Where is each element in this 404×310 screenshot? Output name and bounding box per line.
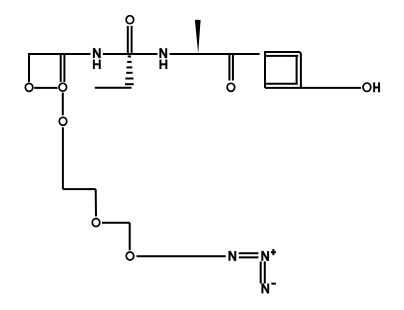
node O5: chain oxygen bbox=[59, 117, 67, 125]
ring: inner right double-bond line bbox=[296, 56, 298, 84]
wire: dioxetane ring top edge / backbone to N1 bbox=[28, 53, 91, 55]
node N2: amide nitrogen bbox=[160, 48, 166, 58]
wire: N4=N5 double bond left line bbox=[260, 261, 262, 283]
wire: corner horizontal CH2-CH2 bbox=[63, 188, 96, 190]
ring: inner top double-bond line bbox=[266, 55, 298, 57]
node O3: carbonyl oxygen top bbox=[126, 16, 134, 24]
wire: N3=N4 double bond bottom line bbox=[239, 256, 259, 258]
wire: ring bottom edge continuing to OH bbox=[265, 87, 361, 89]
wire: backbone N1 to N2 through central carbon bbox=[103, 53, 158, 55]
ring: square aromatic ring outer top edge bbox=[264, 51, 300, 53]
wire: O2 to O5 bond bbox=[62, 93, 64, 116]
node N4: azide nitrogen positive bbox=[262, 251, 268, 261]
wire: C=O3 double bond left line bbox=[127, 26, 129, 53]
node N3: azide nitrogen bbox=[230, 251, 236, 261]
wire: C=O3 double bond right line bbox=[131, 26, 133, 53]
node charge plus on N4 bbox=[271, 249, 276, 255]
wire: C4=O4 double bond left line bbox=[228, 55, 230, 81]
wire: C=O2 double bond left line bbox=[60, 55, 62, 82]
wire: C4=O4 double bond right line bbox=[232, 55, 234, 81]
node N1: amide nitrogen bbox=[94, 48, 100, 58]
node O6: chain oxygen bbox=[92, 219, 100, 227]
wire: acetal CH2 down to O7 bbox=[129, 223, 131, 251]
wedge: hashed bond from central carbon down (6 dashes) bbox=[125, 57, 134, 85]
wedge: solid bond up to methyl bbox=[195, 20, 201, 54]
wire: O5 down to corner bbox=[62, 127, 64, 189]
wire: O6 to acetal CH2 bbox=[102, 222, 130, 224]
wire: C=O2 double bond right line bbox=[63, 55, 65, 82]
node OH: phenol hydroxyl hydrogen bbox=[374, 82, 379, 92]
node O1: ring bottom-left oxygen bbox=[25, 83, 32, 91]
ring: outer left edge bbox=[264, 52, 266, 88]
wire: O1-O2 peroxide bond bbox=[34, 87, 57, 89]
wire: corner vertical down to O6 bbox=[95, 189, 97, 216]
wire: N4=N5 double bond right line bbox=[264, 261, 266, 283]
node O2: ring bottom-right oxygen bbox=[59, 83, 67, 91]
ring: corner connector top-right bbox=[299, 52, 302, 54]
wire: O7 to azide N3 bbox=[137, 255, 226, 257]
wire: backbone N2 through alpha C and carbonyl C toward ring bbox=[170, 53, 260, 55]
node N5: azide nitrogen negative bbox=[262, 284, 268, 294]
ring: inner bottom double-bond line bbox=[266, 83, 298, 85]
wire: N3=N4 double bond top line bbox=[239, 252, 259, 254]
node H1: amide H bbox=[94, 60, 100, 70]
node O7: chain oxygen bbox=[126, 252, 134, 260]
wire: ethyl C-C bond bbox=[95, 87, 132, 89]
node OH: phenol hydroxyl oxygen bbox=[363, 83, 371, 91]
node O4: ketone oxygen bbox=[227, 83, 235, 91]
ring: outer right edge bbox=[300, 53, 302, 88]
node H2: amide H bbox=[160, 60, 166, 70]
node charge minus on N5 bbox=[271, 283, 276, 285]
wire: dioxetane ring left edge bbox=[28, 54, 30, 82]
